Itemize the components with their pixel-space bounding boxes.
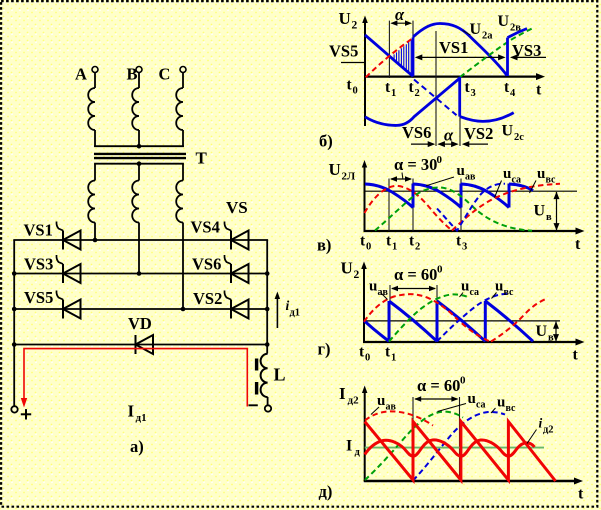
wire secondary common bbox=[94, 163, 184, 165]
plot g) Uv arrow bbox=[555, 322, 557, 341]
winding secondary C bbox=[176, 181, 183, 223]
svg-text:α = 30: α = 30 bbox=[394, 155, 437, 174]
wire VS5 row bbox=[13, 308, 268, 310]
plot b) curve U2a rise red dashed bbox=[366, 37, 414, 77]
inductor L winding bbox=[261, 354, 268, 397]
svg-text:0: 0 bbox=[353, 86, 358, 97]
wire secondary C lead bbox=[182, 164, 184, 181]
plot g) t1 gridline bbox=[389, 285, 391, 342]
plot v) Uv level line bbox=[365, 190, 578, 192]
svg-text:I: I bbox=[339, 384, 346, 403]
plot d) u_ca pointer bbox=[438, 404, 467, 412]
svg-text:U: U bbox=[341, 259, 353, 278]
svg-text:I: I bbox=[346, 438, 352, 455]
svg-text:2с: 2с bbox=[514, 132, 524, 143]
svg-text:б): б) bbox=[319, 132, 333, 151]
svg-text:VS2: VS2 bbox=[193, 289, 222, 308]
svg-text:д): д) bbox=[319, 482, 333, 501]
plot b) VS5 line bbox=[341, 62, 365, 64]
plot d) Id average line green bbox=[365, 447, 544, 449]
thyristor VS4 bbox=[230, 231, 232, 250]
svg-text:вс: вс bbox=[506, 403, 517, 414]
plot v) curve u_ab red dashed rising bbox=[452, 184, 560, 231]
winding primary B bbox=[132, 88, 139, 130]
junction left bus VS3 row bbox=[12, 271, 17, 276]
plot b) VS1 conduction arrow bbox=[417, 56, 504, 58]
plot b) axis Y bbox=[364, 20, 366, 126]
plot g) curve u_ca green dashed bbox=[389, 294, 470, 341]
plot v) curve u_ca green dashed bbox=[375, 187, 532, 230]
svg-text:в: в bbox=[548, 333, 554, 344]
plot g) rectified curve blue bbox=[364, 321, 389, 342]
plot g) curve u_ab red dashed bbox=[364, 294, 490, 341]
wire primary star connection bbox=[94, 145, 184, 147]
plot b) alpha arrows bbox=[392, 22, 411, 24]
svg-text:i: i bbox=[539, 416, 543, 431]
plot v) t2 gridline bbox=[412, 179, 414, 232]
plot b) axis X bbox=[364, 75, 539, 77]
plot d) curve u_ab red dashed bbox=[365, 411, 433, 425]
svg-text:u: u bbox=[495, 279, 503, 295]
plot d) alpha arrows bbox=[415, 398, 458, 400]
junction right bus VS2 row bbox=[265, 307, 270, 312]
svg-text:д2: д2 bbox=[348, 394, 360, 406]
transformer T core bbox=[94, 153, 186, 155]
junction right bus VS6 row bbox=[265, 271, 270, 276]
plot d) thyristor current sawtooth red bbox=[365, 422, 556, 482]
plot b) commutation jump t3 bbox=[458, 77, 461, 117]
terminal minus bbox=[265, 405, 271, 411]
plot g) u_ca pointer bbox=[460, 293, 464, 298]
wire VS1 row bbox=[13, 239, 268, 241]
svg-text:2: 2 bbox=[415, 88, 420, 99]
plot v) Uv arrow bbox=[556, 192, 558, 230]
plot g) curve u_ab2 red dashed bbox=[491, 299, 545, 341]
svg-text:T: T bbox=[196, 149, 208, 168]
svg-text:1: 1 bbox=[392, 242, 397, 253]
svg-text:0: 0 bbox=[437, 264, 443, 276]
svg-text:г): г) bbox=[318, 340, 331, 359]
svg-text:в): в) bbox=[317, 236, 331, 255]
svg-text:u: u bbox=[461, 279, 469, 295]
svg-text:1: 1 bbox=[391, 88, 396, 99]
svg-text:0: 0 bbox=[460, 375, 466, 387]
wire left bus bbox=[13, 240, 15, 407]
svg-text:0: 0 bbox=[437, 154, 443, 166]
wire right bus bbox=[266, 240, 268, 354]
svg-text:VS6: VS6 bbox=[402, 123, 431, 142]
svg-text:α = 60: α = 60 bbox=[394, 265, 437, 284]
plot b) t3 gridline lower bbox=[459, 116, 461, 146]
svg-text:U: U bbox=[498, 13, 510, 30]
svg-text:в: в bbox=[546, 212, 552, 223]
current arrow i_d1 bbox=[276, 297, 278, 328]
svg-text:4: 4 bbox=[510, 88, 516, 99]
node C terminal bbox=[180, 67, 186, 73]
plot b) VS2 arrow bbox=[464, 143, 489, 145]
plot v) curve u_bc blue dashed bbox=[437, 184, 505, 231]
wire secondary A lead bbox=[94, 164, 96, 181]
wire primary C bottom bbox=[182, 130, 184, 147]
wire bottom row bbox=[13, 344, 268, 346]
junction primary-B star bbox=[137, 144, 142, 149]
svg-text:ав: ав bbox=[386, 402, 397, 413]
svg-text:B: B bbox=[127, 65, 138, 84]
plot v) alpha arrows bbox=[391, 178, 411, 180]
svg-text:u: u bbox=[369, 279, 377, 295]
plot b) curve negative dome solid blue bbox=[460, 113, 514, 122]
svg-text:u: u bbox=[537, 166, 545, 182]
plot d) t2 gridline bbox=[459, 397, 461, 481]
plot g) u_ab pointer bbox=[381, 293, 388, 300]
svg-text:t: t bbox=[573, 347, 579, 364]
plot v) rectified curve blue bbox=[365, 184, 413, 208]
plot b) curve U2v rise green dashed bbox=[460, 28, 533, 77]
wire secondary B lead bbox=[138, 164, 140, 181]
plot g) Uv level line bbox=[364, 320, 560, 322]
svg-text:вс: вс bbox=[504, 287, 515, 298]
wire VS3 row bbox=[13, 273, 268, 275]
winding primary C bbox=[176, 88, 183, 130]
svg-text:VS5: VS5 bbox=[24, 288, 53, 307]
wire primary B bottom bbox=[138, 130, 140, 147]
wire L to minus terminal bbox=[267, 397, 269, 406]
winding primary A bbox=[88, 88, 95, 130]
svg-text:t: t bbox=[536, 82, 542, 99]
plot b) curve U2a dome solid blue bbox=[413, 24, 507, 76]
svg-text:I: I bbox=[128, 402, 135, 421]
plot v) u_bc pointer bbox=[530, 181, 537, 194]
thyristor VS1 bbox=[62, 231, 64, 250]
svg-text:U: U bbox=[329, 160, 341, 179]
label plus bbox=[21, 413, 31, 415]
svg-text:ав: ав bbox=[465, 172, 476, 183]
svg-text:α = 60: α = 60 bbox=[417, 376, 460, 395]
svg-text:U: U bbox=[470, 21, 482, 38]
svg-text:2: 2 bbox=[354, 269, 360, 281]
plot g) u_bc pointer bbox=[492, 293, 497, 299]
wire secondary B to VS3 row bbox=[138, 223, 140, 274]
node B terminal bbox=[136, 67, 142, 73]
svg-text:VS1: VS1 bbox=[24, 221, 53, 240]
svg-text:A: A bbox=[75, 65, 87, 84]
svg-text:са: са bbox=[512, 175, 522, 186]
svg-text:VS4: VS4 bbox=[191, 218, 220, 237]
junction secondary-B bbox=[137, 161, 142, 166]
plot b) commutation jump t4 bbox=[506, 38, 509, 76]
svg-text:u: u bbox=[377, 393, 385, 409]
plot g) alpha arrows bbox=[392, 288, 435, 290]
svg-text:а): а) bbox=[130, 437, 144, 456]
plot b) commutation jump t2 bbox=[412, 38, 415, 77]
thyristor VS6 bbox=[230, 264, 232, 283]
plot b) VS6 arrow bbox=[411, 143, 434, 145]
svg-text:u: u bbox=[468, 391, 476, 407]
arrow red to plus terminal bbox=[21, 398, 27, 408]
svg-text:C: C bbox=[159, 65, 171, 84]
winding secondary B bbox=[132, 181, 139, 223]
junction left bus VS5 row bbox=[12, 307, 17, 312]
svg-text:VD: VD bbox=[128, 314, 152, 333]
plot b) curve U2v solid blue bbox=[508, 29, 528, 38]
svg-text:са: са bbox=[476, 400, 486, 411]
wire VD red output plus bbox=[24, 349, 247, 407]
plot d) axis Y bbox=[364, 390, 366, 481]
wire secondary C to VS5 row bbox=[182, 223, 184, 310]
svg-text:са: са bbox=[470, 287, 480, 298]
plot g) axis X bbox=[363, 341, 578, 343]
plot d) axis X bbox=[364, 480, 577, 482]
svg-text:3: 3 bbox=[471, 88, 476, 99]
svg-text:2Л: 2Л bbox=[342, 171, 357, 183]
svg-text:u: u bbox=[457, 163, 465, 179]
svg-text:2а: 2а bbox=[482, 31, 493, 42]
svg-text:VS6: VS6 bbox=[192, 255, 221, 274]
wire secondary A to VS1 row bbox=[94, 223, 96, 241]
svg-text:3: 3 bbox=[462, 242, 467, 253]
svg-text:2: 2 bbox=[415, 242, 420, 253]
thyristor VS2 bbox=[230, 300, 232, 319]
svg-text:VS3: VS3 bbox=[24, 255, 53, 274]
svg-text:U: U bbox=[502, 123, 514, 140]
diode VD bbox=[135, 335, 137, 354]
inductor L core bars bbox=[255, 359, 258, 371]
plot d) curve u_ca green dashed bbox=[365, 412, 463, 480]
thyristor VS5 bbox=[62, 300, 64, 319]
svg-text:L: L bbox=[274, 365, 286, 385]
junction left bus bottom row bbox=[12, 342, 17, 347]
plot v) u_ab pointer bbox=[426, 177, 454, 186]
junction phase-c VS5 row bbox=[181, 307, 186, 312]
plot d) i_d2 pointer bbox=[527, 430, 537, 444]
plot v) t3 gridline bbox=[460, 179, 462, 232]
terminal plus bbox=[11, 406, 17, 412]
svg-text:VS: VS bbox=[226, 198, 248, 217]
plot b) t1 gridline bbox=[388, 21, 390, 78]
plot v) u_ca pointer bbox=[495, 181, 502, 198]
plot b) U2a pointer bbox=[463, 31, 471, 36]
plot b) dashed blue diagonal bbox=[414, 80, 457, 116]
wire phase A lead bbox=[94, 73, 96, 89]
junction right bus bottom row bbox=[265, 342, 270, 347]
svg-text:д1: д1 bbox=[136, 412, 147, 424]
svg-text:0: 0 bbox=[365, 353, 370, 364]
svg-text:вс: вс bbox=[546, 175, 557, 186]
svg-text:VS2: VS2 bbox=[464, 124, 493, 143]
wire primary A bottom bbox=[94, 130, 96, 147]
plot v) axis X bbox=[364, 230, 579, 232]
plot b) curve U2b-tail solid blue bbox=[365, 35, 413, 76]
plot g) curve u_bc blue dashed bbox=[437, 294, 511, 342]
svg-text:д: д bbox=[355, 447, 361, 458]
label minus bbox=[249, 404, 258, 406]
svg-text:U: U bbox=[339, 9, 351, 28]
thyristor VS3 bbox=[62, 264, 64, 283]
svg-text:2: 2 bbox=[352, 20, 358, 32]
svg-text:VS1: VS1 bbox=[439, 38, 468, 57]
wire phase B lead bbox=[138, 73, 140, 89]
svg-text:u: u bbox=[497, 395, 505, 411]
wire phase C lead bbox=[182, 73, 184, 89]
svg-text:U: U bbox=[534, 203, 546, 220]
svg-text:α: α bbox=[444, 126, 454, 145]
plot b) commutation hatch bbox=[392, 40, 412, 75]
plot d) load current ripple red bbox=[365, 440, 535, 456]
svg-text:VS5: VS5 bbox=[329, 42, 358, 61]
plot d) u_bc pointer bbox=[491, 408, 496, 413]
plot b) t2 gridline bbox=[412, 21, 414, 78]
svg-text:t: t bbox=[578, 486, 584, 503]
plot g) t2 gridline bbox=[436, 285, 438, 342]
svg-text:ав: ав bbox=[378, 287, 389, 298]
svg-text:1: 1 bbox=[391, 353, 396, 364]
plot b) peak gridline bbox=[435, 31, 437, 146]
junction phase-b VS3 row bbox=[137, 271, 142, 276]
svg-text:t: t bbox=[575, 236, 581, 253]
svg-text:0: 0 bbox=[366, 242, 371, 253]
plot v) axis Y bbox=[364, 164, 366, 231]
plot b) curve U2c solid blue bbox=[365, 78, 460, 125]
plot d) curve u_bc blue dashed bbox=[413, 412, 505, 481]
plot v) curve u_ab red dashed bbox=[365, 186, 453, 231]
plot g) axis Y bbox=[363, 266, 365, 342]
plot b) alpha arrows lower bbox=[439, 143, 458, 145]
svg-text:д1: д1 bbox=[290, 308, 301, 319]
svg-text:д2: д2 bbox=[543, 425, 554, 436]
plot v) t1 gridline bbox=[388, 179, 390, 232]
plot d) u_ab pointer bbox=[371, 407, 379, 415]
plot v) alpha pointer tick bbox=[401, 173, 404, 179]
junction phase-a VS1 row bbox=[93, 238, 98, 243]
winding secondary A bbox=[88, 181, 95, 223]
node A terminal bbox=[92, 67, 98, 73]
svg-text:U: U bbox=[536, 323, 548, 340]
svg-text:u: u bbox=[503, 166, 511, 182]
plot d) t1 gridline bbox=[412, 397, 414, 481]
plot b) VS3 arrow bbox=[512, 56, 547, 58]
